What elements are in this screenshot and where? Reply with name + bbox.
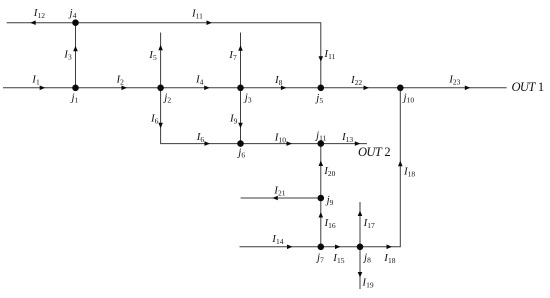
arrowhead I1 right <box>40 86 46 91</box>
svg-text:j8: j8 <box>362 251 371 264</box>
svg-text:j9: j9 <box>325 194 334 207</box>
wire j11-j9-j7 vertical I20/I16 <box>320 144 322 247</box>
node j2 <box>157 85 164 92</box>
svg-text:j1: j1 <box>70 92 79 105</box>
arrowhead I16 up <box>319 212 324 218</box>
arrowhead I2 right <box>122 86 128 91</box>
svg-text:I2: I2 <box>116 74 125 87</box>
node j9 <box>318 195 325 202</box>
arrowhead I13 right <box>355 141 361 146</box>
wire bottom bus I14/I15/I18 with corner up to j10 <box>240 88 401 247</box>
svg-text:I8: I8 <box>274 74 283 87</box>
arrowhead I18 right of j8 <box>387 245 393 250</box>
node j4 <box>72 19 79 26</box>
arrowhead I9 down <box>238 123 243 129</box>
arrowhead I11 right on top bus <box>207 20 213 25</box>
svg-text:j2: j2 <box>162 92 171 105</box>
svg-text:I1: I1 <box>31 74 40 87</box>
svg-text:I22: I22 <box>350 74 362 87</box>
wire I3 vertical j1 to j4 <box>75 23 77 88</box>
wire I19 stub down from j8 <box>359 247 361 289</box>
arrowhead I19 down <box>358 272 363 278</box>
wire I6 down from j2 then right through j6 to OUT2 <box>161 88 367 144</box>
svg-text:I15: I15 <box>332 252 344 265</box>
arrowhead I10 right <box>287 141 293 146</box>
wire I17 stub up from j8 <box>359 202 361 247</box>
svg-text:j6: j6 <box>236 147 245 160</box>
svg-text:I13: I13 <box>341 131 353 144</box>
svg-text:I12: I12 <box>33 7 45 20</box>
arrowhead I6 right into j6 <box>205 141 211 146</box>
node j10 <box>397 85 404 92</box>
svg-text:I23: I23 <box>448 73 460 86</box>
arrowhead I8 right <box>281 86 287 91</box>
svg-text:j3: j3 <box>243 92 252 105</box>
svg-text:j4: j4 <box>68 7 77 20</box>
svg-text:I3: I3 <box>63 49 72 62</box>
arrowhead I14 right <box>287 245 293 250</box>
arrowhead I22 right <box>364 86 370 91</box>
arrowhead I7 up <box>238 45 243 51</box>
svg-text:j11: j11 <box>314 129 327 142</box>
svg-text:I10: I10 <box>274 131 286 144</box>
svg-text:I14: I14 <box>271 233 283 246</box>
svg-text:I9: I9 <box>229 112 238 125</box>
svg-text:I6: I6 <box>150 112 159 125</box>
svg-text:OUT 2: OUT 2 <box>358 145 391 159</box>
arrowhead I5 up <box>158 45 163 51</box>
svg-text:I19: I19 <box>361 276 373 289</box>
node j11 <box>318 140 325 147</box>
svg-text:I21: I21 <box>273 184 285 197</box>
arrowhead I11 down into j5 <box>319 56 324 62</box>
svg-text:I18: I18 <box>383 252 395 265</box>
arrowhead I3 up <box>73 46 78 52</box>
arrowhead I17 up <box>358 211 363 217</box>
svg-text:I5: I5 <box>148 49 157 62</box>
svg-text:I6: I6 <box>196 131 205 144</box>
wire I5 stub up from j2 <box>160 33 162 88</box>
svg-text:I11: I11 <box>191 7 203 20</box>
arrowhead I6 down <box>158 123 163 129</box>
arrowhead I23 right <box>465 86 471 91</box>
svg-text:j10: j10 <box>402 92 415 105</box>
wire I7 stub up from j3 <box>240 33 242 88</box>
wire top bus I12/I11 with corner down to j5 <box>7 23 321 88</box>
arrowhead I15 right <box>335 245 341 250</box>
svg-text:OUT 1: OUT 1 <box>512 80 545 94</box>
svg-text:j5: j5 <box>314 92 323 105</box>
svg-text:I16: I16 <box>324 217 336 230</box>
wire I9 vertical j3 to j6 <box>240 88 242 144</box>
node j3 <box>237 85 244 92</box>
svg-text:I18: I18 <box>403 166 415 179</box>
node j8 <box>357 244 364 251</box>
svg-text:I7: I7 <box>228 49 237 62</box>
node j7 <box>318 244 325 251</box>
arrowhead I18 up on right riser <box>398 161 403 167</box>
arrowhead I21 left <box>272 196 278 201</box>
arrowhead I12 left <box>30 20 36 25</box>
node j6 <box>237 140 244 147</box>
wire I21 horizontal out of j9 to left <box>241 197 321 199</box>
arrowhead I4 right <box>204 86 210 91</box>
svg-text:I20: I20 <box>323 165 335 178</box>
svg-text:I11: I11 <box>323 48 335 61</box>
wire main horizontal bus I1..I23 <box>3 87 507 89</box>
svg-text:j7: j7 <box>315 252 324 265</box>
node j1 <box>72 85 79 92</box>
arrowhead I20 up <box>319 161 324 167</box>
svg-text:I4: I4 <box>195 74 204 87</box>
node j5 <box>318 85 325 92</box>
svg-text:I17: I17 <box>363 217 375 230</box>
